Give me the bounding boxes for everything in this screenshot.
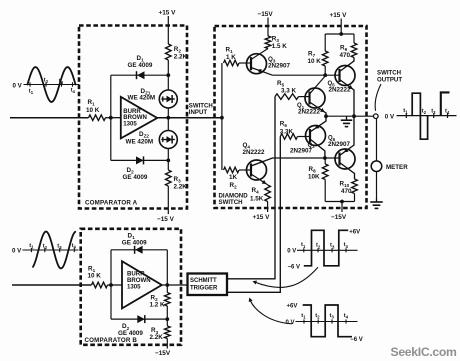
node: switch input bus junction (220, 116, 224, 120)
svg-text:OUTPUT: OUTPUT (377, 77, 402, 84)
node: +15V rail junction (339, 32, 343, 36)
svg-text:−6 V: −6 V (350, 337, 363, 343)
svg-text:0 V: 0 V (385, 114, 395, 121)
switch output waveform (397, 92, 457, 139)
wire: feedback right vertical (comparator B) (166, 250, 168, 293)
resistor R7 10K (324, 34, 326, 51)
schmitt output waveform 2 (286, 304, 363, 344)
transistor Q3 2N2907 (247, 54, 267, 74)
svg-text:0 V: 0 V (12, 248, 22, 255)
svg-text:470: 470 (340, 52, 351, 59)
wire: comparator B input line (12, 284, 92, 286)
wire: R1 to op-amp B input (108, 284, 123, 286)
svg-text:2N2222: 2N2222 (243, 149, 266, 156)
wire: op-amp B output to schmitt trigger (162, 284, 188, 286)
svg-text:1.2 K: 1.2 K (150, 302, 166, 309)
wire: Q1 emitter (310, 102, 327, 116)
op-amp U1 BURR BROWN 1305 (comparator A) (121, 97, 157, 139)
node: R7/Q5 base junction (323, 73, 327, 77)
svg-text:SCHMITT: SCHMITT (190, 278, 217, 284)
meter M1 (371, 161, 382, 172)
pointer arrow: upper waveform to schmitt output 1 (254, 267, 318, 287)
svg-text:2.2K: 2.2K (174, 184, 188, 191)
svg-text:−6 V: −6 V (288, 264, 301, 270)
wire: Q5 collector to R9 (340, 58, 355, 72)
wire: R10 to bottom rail (354, 194, 356, 202)
wire: +15V rail (325, 33, 354, 35)
wire: -15V bottom rail (325, 201, 354, 203)
svg-text:t4: t4 (445, 109, 450, 116)
svg-text:−15V: −15V (331, 214, 347, 221)
wire: R3 to Q3 collector (251, 49, 268, 60)
comparator A box (79, 26, 187, 209)
transistor Q6 2N2907 (335, 149, 355, 169)
pointer: switch output label to terminal (375, 84, 381, 111)
resistor R2 1.2K (comparator B) (165, 293, 171, 306)
resistor R1 10K (comparator B) (92, 282, 108, 288)
resistor R3 1.5K (diamond switch) (265, 36, 271, 48)
wire: Q4 collector to Q6 base rail (251, 158, 340, 166)
diamond switch box (215, 26, 367, 208)
wire: R1 to Q3 base (239, 62, 251, 64)
svg-text:COMPARATOR A: COMPARATOR A (85, 200, 138, 207)
svg-text:t2: t2 (44, 78, 49, 85)
svg-text:+6V: +6V (287, 304, 298, 310)
input waveform comparator B (12, 232, 79, 269)
input waveform comparator A (13, 67, 80, 102)
svg-text:t2: t2 (422, 109, 427, 116)
wire: R7 to node (324, 66, 326, 75)
svg-text:GE 4009: GE 4009 (122, 239, 147, 246)
svg-text:2N2222: 2N2222 (298, 109, 321, 116)
svg-text:0 V: 0 V (286, 320, 295, 326)
svg-text:2.2K: 2.2K (150, 334, 164, 341)
wire: input bus vertical (221, 63, 223, 170)
schmitt trigger box (188, 274, 228, 296)
svg-text:COMPARATOR B: COMPARATOR B (85, 337, 138, 344)
svg-text:2N2907: 2N2907 (268, 62, 291, 69)
resistor R6 3.3K (280, 134, 297, 140)
wire: Q6 collector to R10 (340, 163, 355, 180)
wire: switch output line (326, 115, 373, 117)
svg-text:0 V: 0 V (13, 82, 23, 89)
node: R2/D1 junction (166, 73, 170, 77)
svg-text:1.5K: 1.5K (250, 196, 264, 203)
wire: op-amp A output to switch input bus (157, 117, 222, 119)
wire: comparator A feedback left vertical (110, 75, 112, 160)
wire: R3 to -15V (167, 186, 169, 214)
node: comparator B output (165, 283, 169, 287)
schmitt output waveform 1 (287, 229, 360, 270)
svg-text:t1: t1 (29, 89, 34, 96)
svg-text:+15 V: +15 V (253, 214, 271, 221)
svg-text:2N2907: 2N2907 (290, 147, 313, 154)
wire: Q5 emitter to output line (340, 80, 355, 117)
transistor Q5 2N2222 (335, 66, 355, 86)
diode DZ2 WE 420M (159, 131, 177, 149)
diode D2 GE 4009 (comparator A) (111, 159, 169, 161)
resistor R1 1K (diamond switch) (224, 60, 239, 66)
wire: -15V to R3 (267, 18, 269, 37)
wire: R4 to +15V (267, 202, 269, 213)
svg-text:t1: t1 (403, 108, 408, 115)
transistor Q2 2N2907 (306, 126, 326, 146)
node: bottom rail junction (340, 200, 344, 204)
svg-text:470: 470 (341, 188, 352, 195)
wire: Q3 emitter (251, 68, 273, 76)
ground (meter) (376, 198, 378, 202)
resistor R3 2.2K (comparator B) (165, 326, 171, 338)
svg-text:10 K: 10 K (308, 58, 322, 65)
svg-text:WE 420M: WE 420M (128, 95, 156, 102)
svg-text:t3: t3 (431, 109, 436, 116)
svg-text:+15 V: +15 V (159, 10, 177, 17)
node: R2/D2/R3 junction (165, 317, 169, 321)
svg-text:t2: t2 (316, 243, 321, 250)
svg-text:−15V: −15V (155, 350, 171, 357)
svg-text:1.5 K: 1.5 K (272, 43, 288, 50)
svg-text:2.2K: 2.2K (174, 54, 188, 61)
svg-text:0 V: 0 V (287, 249, 296, 255)
svg-text:t3: t3 (57, 244, 62, 251)
svg-text:t4: t4 (344, 313, 349, 320)
svg-text:2N2907: 2N2907 (328, 141, 351, 148)
resistor R3 2.2K (comparator A) (166, 170, 172, 186)
svg-text:SeekIC.com: SeekIC.com (391, 345, 458, 359)
svg-text:t3: t3 (330, 243, 335, 250)
svg-text:GE 4009: GE 4009 (128, 62, 153, 69)
wire: schmitt output 2 to R6 (227, 137, 280, 293)
svg-text:1 K: 1 K (226, 54, 236, 61)
wire: R1 to op-amp input (106, 117, 121, 119)
svg-text:GE 4009: GE 4009 (118, 330, 143, 337)
node: comparator A output (166, 116, 170, 120)
wire: Q2 collector (310, 139, 325, 158)
svg-text:t1: t1 (29, 243, 34, 250)
svg-text:t2: t2 (315, 313, 320, 320)
svg-text:t3: t3 (330, 313, 335, 320)
svg-text:10 K: 10 K (86, 107, 100, 114)
wire: Q4 emitter (251, 174, 268, 185)
svg-text:t2: t2 (43, 244, 48, 251)
wire: rail to -15V (341, 202, 343, 213)
svg-text:GE 4009: GE 4009 (123, 174, 148, 181)
svg-text:2N2222: 2N2222 (329, 87, 352, 94)
diode D1 GE 4009 (comparator A) (111, 74, 169, 76)
wire: Q6 emitter to output line (340, 116, 355, 155)
svg-text:METER: METER (386, 164, 408, 171)
wire: +15V drop (340, 19, 342, 35)
ground (diamond switch output) (346, 116, 348, 120)
resistor R5 3.3K (275, 94, 299, 100)
svg-text:t1: t1 (301, 242, 306, 249)
svg-text:WE 420M: WE 420M (126, 138, 154, 145)
wire: Q3 emitter to Q5 base rail (273, 74, 340, 76)
svg-text:10K: 10K (308, 173, 320, 180)
wire: R8 to bottom rail (324, 180, 326, 202)
wire: DZ1 to output node (167, 108, 169, 131)
svg-text:SWITCH: SWITCH (377, 69, 401, 76)
svg-text:−15V: −15V (258, 11, 274, 18)
wire: R3 to -15V (comparator B) (166, 339, 168, 349)
svg-text:1305: 1305 (123, 121, 137, 128)
resistor R2 2.2K (comparator A) (166, 44, 172, 60)
resistor R10 470 (352, 179, 358, 194)
wire: comparator A input line (10, 117, 89, 119)
transistor Q1 2N2222 (305, 88, 325, 108)
svg-text:1K: 1K (229, 174, 238, 181)
svg-text:3.3 K: 3.3 K (281, 87, 297, 94)
wire: R5 to Q1 base (299, 96, 310, 98)
svg-text:−15 V: −15 V (157, 216, 175, 223)
node: comparator A summing junction (109, 116, 113, 120)
op-amp U2 BURR BROWN 1305 (comparator B) (122, 261, 162, 308)
svg-text:3.3K: 3.3K (280, 129, 294, 136)
pointer arrow: lower waveform to schmitt output 2 (250, 299, 292, 324)
svg-text:+6V: +6V (349, 229, 360, 235)
node: D2/R3 junction (166, 159, 170, 163)
svg-text:t1: t1 (301, 313, 306, 320)
wire: schmitt output 1 to R5 (227, 97, 275, 279)
wire: R2 to Q4 base (239, 169, 251, 171)
resistor R2 1K (diamond switch) (224, 167, 239, 173)
wire: R2 to D2 junction (166, 306, 168, 326)
resistor R9 470 (353, 34, 355, 43)
node: Q5/Q6 emitter junction (352, 114, 356, 118)
node: Q2 collector / Q6 base junction (323, 156, 327, 160)
resistor R8 10K (324, 158, 326, 164)
wire: R2 to D1 junction (167, 60, 169, 90)
switch output terminal (374, 114, 379, 119)
svg-text:t4: t4 (72, 243, 77, 250)
node: Q1/Q2 emitter junction (324, 114, 328, 118)
resistor R4 1.5K (265, 185, 271, 202)
wire: DZ2 to D2 junction (167, 149, 169, 171)
svg-text:t4: t4 (71, 88, 76, 95)
transistor Q4 2N2222 (247, 160, 267, 180)
wire: meter to ground (376, 172, 378, 199)
svg-text:10 K: 10 K (88, 272, 102, 279)
wire: comparator B feedback left vertical (110, 250, 112, 319)
resistor R1 10K (comparator A) (89, 115, 106, 121)
wire: R6 to Q2 base (298, 136, 311, 138)
svg-text:TRIGGER: TRIGGER (190, 286, 218, 292)
wire: Q2 emitter (310, 116, 326, 132)
svg-text:+15 V: +15 V (330, 12, 348, 19)
svg-text:1305: 1305 (127, 284, 141, 291)
comparator B box (81, 229, 181, 345)
wire: +15V to R2 (167, 16, 169, 44)
svg-text:INPUT: INPUT (189, 109, 208, 116)
diode D1 GE 4009 (comparator B) (111, 249, 167, 251)
wire: Q1 collector to R7 node (310, 76, 326, 94)
node: comparator B summing junction (109, 283, 113, 287)
svg-text:SWITCH: SWITCH (219, 199, 243, 206)
diode D2 GE 4009 (comparator B) (111, 318, 167, 320)
diode DZ1 WE 420M (159, 90, 177, 108)
meter wire from terminal (376, 119, 378, 162)
svg-text:t4: t4 (344, 242, 349, 249)
